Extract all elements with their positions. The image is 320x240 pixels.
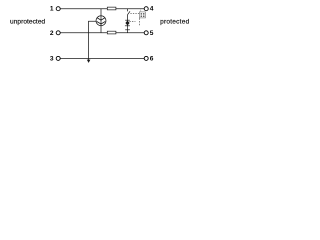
svg-text:3: 3 (50, 55, 54, 62)
svg-text:protected: protected (160, 18, 189, 25)
svg-text:unprotected: unprotected (10, 18, 46, 25)
svg-text:4: 4 (150, 6, 154, 13)
svg-text:1: 1 (50, 6, 54, 13)
svg-text:5: 5 (150, 30, 154, 37)
svg-text:2: 2 (50, 30, 54, 37)
svg-text:6: 6 (150, 55, 154, 62)
